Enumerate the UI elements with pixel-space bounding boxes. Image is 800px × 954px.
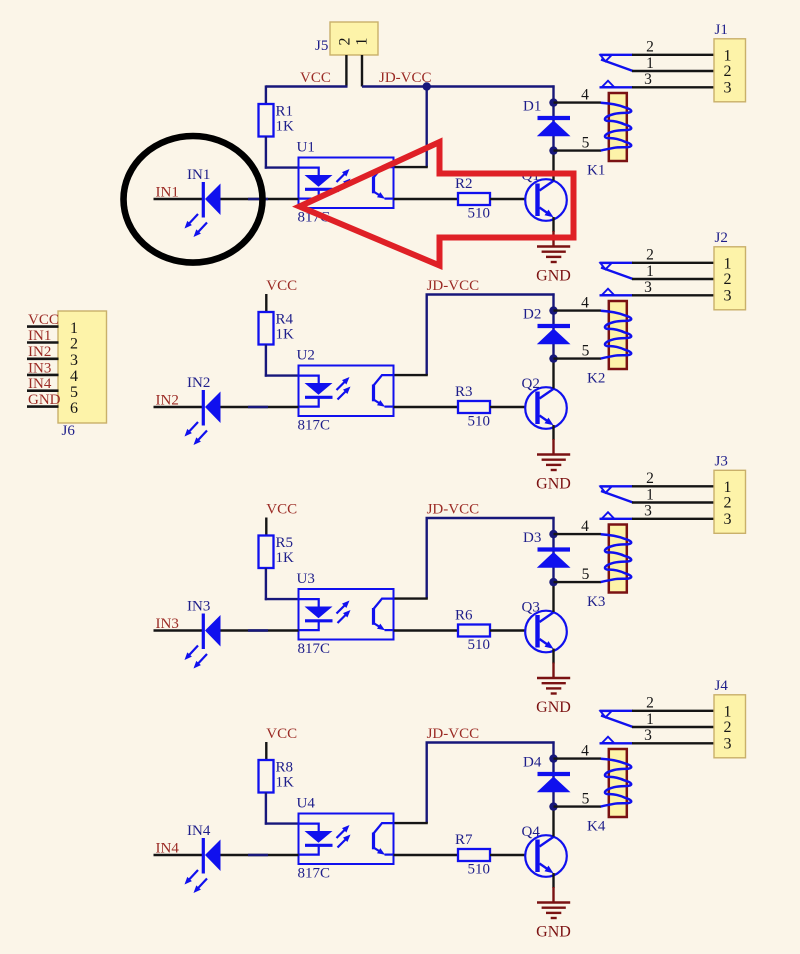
svg-text:VCC: VCC bbox=[28, 312, 59, 328]
light arrows inside U2 bbox=[337, 381, 346, 390]
ground symbol (channel 4) bbox=[537, 903, 570, 919]
wire JD-VCC rail drop to diode D1 bbox=[552, 85, 554, 151]
svg-text:IN3: IN3 bbox=[28, 360, 51, 376]
svg-text:2: 2 bbox=[70, 336, 78, 353]
wire Q1 emitter to ground bbox=[552, 217, 554, 232]
resistor R5 bbox=[259, 536, 274, 569]
svg-text:VCC: VCC bbox=[266, 278, 297, 294]
junction dot JD-VCC / opto collector bbox=[423, 82, 431, 90]
svg-text:1: 1 bbox=[70, 320, 78, 337]
wire coil pin 4 bbox=[554, 101, 602, 103]
svg-text:1: 1 bbox=[354, 38, 371, 46]
relay coil K1 bbox=[609, 93, 627, 161]
svg-text:1: 1 bbox=[646, 487, 654, 504]
svg-text:5: 5 bbox=[582, 135, 590, 152]
transistor Q2 bbox=[525, 387, 567, 429]
transistor Q1 bbox=[525, 179, 567, 221]
relay coil K4 bbox=[609, 749, 627, 817]
svg-text:4: 4 bbox=[581, 743, 589, 760]
svg-text:R2: R2 bbox=[455, 176, 473, 192]
svg-text:1: 1 bbox=[724, 703, 732, 720]
diode D3 bbox=[538, 547, 571, 551]
svg-text:2: 2 bbox=[646, 247, 654, 264]
wire opto emitter to resistor R7 bbox=[394, 854, 459, 856]
wire contact row pin 3 bbox=[632, 294, 714, 296]
svg-text:1: 1 bbox=[724, 479, 732, 496]
svg-text:GND: GND bbox=[536, 268, 571, 285]
svg-text:VCC: VCC bbox=[266, 726, 297, 742]
svg-text:Q3: Q3 bbox=[522, 600, 540, 616]
resistor R3 bbox=[458, 401, 490, 413]
annotation black circle around IN1 LED bbox=[124, 136, 263, 263]
svg-text:IN2: IN2 bbox=[187, 375, 210, 391]
connector J1 bbox=[714, 39, 746, 102]
wire J5 pin 2 to VCC bbox=[345, 55, 347, 87]
wire contact row pin 1 bbox=[632, 726, 714, 728]
junction dot D2 anode / coil pin 5 bbox=[549, 354, 557, 362]
wire JD-VCC rail drop to diode D3 bbox=[552, 517, 554, 583]
svg-text:IN4: IN4 bbox=[28, 376, 52, 392]
wire opto emitter to resistor R3 bbox=[394, 406, 459, 408]
wire JD-VCC rail drop to diode D4 bbox=[552, 741, 554, 807]
resistor R7 bbox=[458, 849, 490, 861]
resistor R8 bbox=[259, 760, 274, 793]
svg-text:3: 3 bbox=[724, 511, 732, 528]
svg-text:3: 3 bbox=[644, 71, 652, 88]
wire J5 pin 1 to JD-VCC bbox=[361, 55, 363, 87]
svg-text:U4: U4 bbox=[297, 796, 316, 812]
svg-text:D3: D3 bbox=[523, 530, 541, 546]
svg-text:1: 1 bbox=[646, 711, 654, 728]
junction dot D4 anode / coil pin 5 bbox=[549, 802, 557, 810]
resistor R1 bbox=[259, 104, 274, 137]
wire VCC stub (channel 2) bbox=[265, 294, 267, 312]
relay K4 contact common lever bbox=[601, 716, 633, 728]
wire Q3 collector bbox=[552, 583, 554, 613]
light arrows inside U4 bbox=[337, 829, 346, 838]
svg-text:1: 1 bbox=[646, 55, 654, 72]
LED IN4 indicator bbox=[202, 838, 205, 874]
svg-text:Q4: Q4 bbox=[522, 824, 541, 840]
svg-text:510: 510 bbox=[468, 637, 491, 653]
wire input row LED to opto bbox=[220, 629, 299, 631]
relay K2 NO contact bbox=[600, 294, 634, 296]
svg-text:2: 2 bbox=[646, 695, 654, 712]
svg-text:U3: U3 bbox=[297, 571, 315, 587]
svg-text:1K: 1K bbox=[276, 119, 295, 135]
diode D4 bbox=[538, 772, 571, 776]
wire R2 to transistor Q1 base bbox=[490, 198, 526, 200]
svg-text:GND: GND bbox=[536, 924, 571, 941]
svg-text:3: 3 bbox=[724, 735, 732, 752]
wire contact row pin 2 bbox=[632, 262, 714, 264]
wire R7 to transistor Q4 base bbox=[490, 854, 526, 856]
svg-text:817C: 817C bbox=[298, 866, 331, 882]
svg-text:1: 1 bbox=[646, 263, 654, 280]
light arrows inside U3 bbox=[337, 605, 346, 614]
svg-text:J6: J6 bbox=[62, 423, 76, 439]
svg-text:U1: U1 bbox=[297, 140, 315, 156]
svg-text:6: 6 bbox=[70, 400, 78, 417]
photo transistor inside U1 bbox=[374, 167, 394, 199]
svg-text:GND: GND bbox=[536, 476, 571, 493]
svg-text:2: 2 bbox=[724, 719, 732, 736]
svg-text:IN2: IN2 bbox=[28, 344, 51, 360]
svg-text:R5: R5 bbox=[276, 535, 294, 551]
opto-coupler U1 (817C) bbox=[299, 158, 394, 209]
connector J2 bbox=[714, 247, 746, 310]
svg-text:IN4: IN4 bbox=[187, 823, 211, 839]
svg-text:4: 4 bbox=[581, 87, 589, 104]
svg-text:2: 2 bbox=[724, 271, 732, 288]
wire J6 pin 4 stub bbox=[27, 374, 59, 377]
svg-text:Q2: Q2 bbox=[522, 376, 540, 392]
wire contact row pin 2 bbox=[632, 485, 714, 487]
svg-text:1: 1 bbox=[724, 255, 732, 272]
svg-text:K1: K1 bbox=[587, 163, 605, 179]
wire coil pin 5 bbox=[554, 149, 602, 151]
connector J5 bbox=[330, 22, 378, 55]
ground symbol (channel 1) bbox=[537, 247, 570, 263]
LED IN3 indicator bbox=[202, 614, 205, 650]
wire J6 pin 5 stub bbox=[27, 389, 59, 392]
wire input row LED to opto bbox=[220, 198, 299, 200]
svg-text:IN1: IN1 bbox=[28, 328, 51, 344]
wire input row left bbox=[154, 406, 203, 408]
wire JD-VCC rail (channel 3) bbox=[426, 517, 555, 519]
resistor R6 bbox=[458, 625, 490, 637]
wire Q3 emitter to ground bbox=[552, 649, 554, 664]
svg-text:4: 4 bbox=[581, 518, 589, 535]
connector J3 bbox=[714, 470, 746, 533]
svg-text:GND: GND bbox=[28, 392, 61, 408]
wire coil pin 4 bbox=[554, 533, 602, 535]
wire opto collector to JD-VCC bbox=[426, 87, 428, 168]
relay K1 NO contact bbox=[600, 86, 634, 88]
wire Q4 emitter to ground bbox=[552, 873, 554, 888]
wire JD-VCC rail (channel 4) bbox=[426, 741, 555, 743]
opto-coupler U2 (817C) bbox=[299, 366, 394, 417]
photo transistor inside U4 bbox=[374, 823, 394, 855]
svg-text:817C: 817C bbox=[298, 641, 331, 657]
svg-text:3: 3 bbox=[644, 503, 652, 520]
relay K4 NO contact bbox=[600, 742, 634, 744]
wire J6 pin 2 stub bbox=[27, 341, 59, 344]
annotation red arrow pointing at opto U1 bbox=[300, 142, 574, 266]
wire Q4 collector bbox=[552, 807, 554, 837]
wire VCC stub (channel 4) bbox=[265, 742, 267, 760]
wire contact row pin 3 bbox=[632, 86, 714, 88]
svg-text:D4: D4 bbox=[523, 755, 542, 771]
svg-text:U2: U2 bbox=[297, 348, 315, 364]
LED IN2 indicator bbox=[202, 390, 205, 426]
svg-text:K2: K2 bbox=[587, 371, 605, 387]
wire opto emitter to resistor R6 bbox=[394, 629, 459, 631]
svg-text:IN3: IN3 bbox=[187, 599, 210, 615]
wire VCC stub (channel 3) bbox=[265, 518, 267, 536]
relay K2 contact common lever bbox=[601, 268, 633, 280]
LED IN4 emission arrows bbox=[189, 870, 198, 880]
wire opto emitter to resistor R2 bbox=[394, 198, 459, 200]
wire contact row pin 1 bbox=[632, 278, 714, 280]
svg-text:R1: R1 bbox=[276, 104, 294, 120]
svg-text:3: 3 bbox=[644, 279, 652, 296]
svg-text:3: 3 bbox=[70, 352, 78, 369]
wire Q2 collector bbox=[552, 359, 554, 389]
svg-text:D1: D1 bbox=[523, 99, 541, 115]
wire VCC rail (channel 1) bbox=[266, 85, 348, 87]
connector J4 bbox=[714, 695, 746, 758]
opto-coupler U4 (817C) bbox=[299, 814, 394, 865]
resistor R4 bbox=[259, 312, 274, 345]
svg-text:JD-VCC: JD-VCC bbox=[427, 726, 480, 742]
svg-text:4: 4 bbox=[70, 368, 78, 385]
svg-text:3: 3 bbox=[724, 79, 732, 96]
svg-text:R4: R4 bbox=[276, 312, 294, 328]
svg-text:R6: R6 bbox=[455, 608, 473, 624]
diode D2 bbox=[538, 324, 571, 328]
wire opto collector to JD-VCC bbox=[426, 743, 428, 824]
svg-text:GND: GND bbox=[536, 699, 571, 716]
junction dot D1 cathode / coil pin 4 bbox=[549, 98, 557, 106]
wire Q1 collector bbox=[552, 151, 554, 181]
svg-text:1K: 1K bbox=[276, 775, 295, 791]
connector J6 bbox=[58, 311, 107, 423]
wire R4 bottom lead to opto anode bbox=[265, 345, 267, 377]
svg-text:3: 3 bbox=[644, 727, 652, 744]
svg-text:R8: R8 bbox=[276, 760, 294, 776]
svg-text:1: 1 bbox=[724, 47, 732, 64]
wire opto collector to JD-VCC bbox=[426, 518, 428, 599]
wire opto collector to JD-VCC bbox=[426, 295, 428, 376]
relay coil K3 bbox=[609, 525, 627, 593]
svg-text:JD-VCC: JD-VCC bbox=[427, 502, 480, 518]
ground symbol (channel 3) bbox=[537, 678, 570, 694]
svg-text:2: 2 bbox=[646, 470, 654, 487]
wire input row left bbox=[154, 854, 203, 856]
wire contact row pin 1 bbox=[632, 70, 714, 72]
svg-text:J2: J2 bbox=[715, 230, 728, 246]
wire coil pin 4 bbox=[554, 309, 602, 311]
wire JD-VCC rail (channel 1) bbox=[362, 85, 555, 87]
wire R3 to transistor Q2 base bbox=[490, 406, 526, 408]
relay K4 NC contact bbox=[600, 710, 634, 712]
opto-coupler U3 (817C) bbox=[299, 589, 394, 640]
relay K1 NC contact bbox=[600, 54, 634, 56]
wire JD-VCC rail drop to diode D2 bbox=[552, 293, 554, 359]
svg-text:5: 5 bbox=[582, 791, 590, 808]
svg-text:1K: 1K bbox=[276, 327, 295, 343]
junction dot D3 cathode / coil pin 4 bbox=[549, 530, 557, 538]
svg-text:J3: J3 bbox=[715, 453, 728, 469]
wire input row left bbox=[154, 629, 203, 631]
wire contact row pin 2 bbox=[632, 54, 714, 56]
wire input row LED to opto bbox=[220, 854, 299, 856]
resistor R2 bbox=[458, 193, 490, 205]
junction dot D4 cathode / coil pin 4 bbox=[549, 754, 557, 762]
wire JD-VCC rail (channel 2) bbox=[426, 293, 555, 295]
svg-text:J1: J1 bbox=[715, 22, 728, 38]
transistor Q4 bbox=[525, 835, 567, 877]
svg-text:K4: K4 bbox=[587, 819, 606, 835]
relay K3 contact common lever bbox=[601, 491, 633, 503]
svg-text:510: 510 bbox=[468, 206, 491, 222]
svg-text:5: 5 bbox=[582, 566, 590, 583]
svg-text:4: 4 bbox=[581, 295, 589, 312]
svg-text:510: 510 bbox=[468, 862, 491, 878]
svg-text:IN1: IN1 bbox=[187, 167, 210, 183]
LED IN1 indicator bbox=[202, 182, 205, 218]
wire coil pin 5 bbox=[554, 357, 602, 359]
transistor Q3 bbox=[525, 611, 567, 653]
svg-text:J5: J5 bbox=[315, 38, 328, 54]
svg-text:5: 5 bbox=[70, 384, 78, 401]
wire R5 bottom lead to opto anode bbox=[265, 568, 267, 600]
wire coil pin 5 bbox=[554, 805, 602, 807]
junction dot D3 anode / coil pin 5 bbox=[549, 578, 557, 586]
LED IN3 emission arrows bbox=[189, 646, 198, 656]
wire contact row pin 2 bbox=[632, 710, 714, 712]
junction dot D2 cathode / coil pin 4 bbox=[549, 306, 557, 314]
svg-text:2: 2 bbox=[724, 63, 732, 80]
relay coil K2 bbox=[609, 301, 627, 369]
relay K1 contact common lever bbox=[601, 60, 633, 72]
junction dot D1 anode / coil pin 5 bbox=[549, 146, 557, 154]
wire coil pin 4 bbox=[554, 757, 602, 759]
wire J6 pin 3 stub bbox=[27, 357, 59, 360]
relay K2 NC contact bbox=[600, 262, 634, 264]
svg-text:1K: 1K bbox=[276, 550, 295, 566]
svg-text:510: 510 bbox=[468, 414, 491, 430]
svg-text:K3: K3 bbox=[587, 594, 605, 610]
light arrows inside U1 bbox=[337, 173, 346, 182]
svg-text:R7: R7 bbox=[455, 832, 473, 848]
svg-text:3: 3 bbox=[724, 287, 732, 304]
wire J6 pin 1 stub bbox=[27, 325, 59, 328]
LED IN1 emission arrows bbox=[189, 214, 198, 224]
wire input row LED to opto bbox=[220, 406, 299, 408]
LED IN2 emission arrows bbox=[189, 422, 198, 432]
wire R8 bottom lead to opto anode bbox=[265, 793, 267, 825]
svg-text:JD-VCC: JD-VCC bbox=[379, 70, 432, 86]
relay K3 NO contact bbox=[600, 518, 634, 520]
wire contact row pin 3 bbox=[632, 742, 714, 744]
ground symbol (channel 2) bbox=[537, 455, 570, 471]
photo transistor inside U3 bbox=[374, 599, 394, 631]
wire R1 bottom lead to opto anode bbox=[265, 137, 267, 169]
svg-text:R3: R3 bbox=[455, 384, 473, 400]
svg-text:J4: J4 bbox=[715, 678, 729, 694]
wire coil pin 5 bbox=[554, 581, 602, 583]
svg-text:VCC: VCC bbox=[266, 502, 297, 518]
svg-text:JD-VCC: JD-VCC bbox=[427, 278, 480, 294]
svg-text:VCC: VCC bbox=[300, 70, 331, 86]
svg-text:5: 5 bbox=[582, 343, 590, 360]
svg-text:2: 2 bbox=[337, 38, 354, 46]
svg-text:D2: D2 bbox=[523, 307, 541, 323]
wire R6 to transistor Q3 base bbox=[490, 629, 526, 631]
wire contact row pin 3 bbox=[632, 518, 714, 520]
relay K3 NC contact bbox=[600, 485, 634, 487]
diode D1 bbox=[538, 116, 571, 120]
wire contact row pin 1 bbox=[632, 501, 714, 503]
svg-text:817C: 817C bbox=[298, 418, 331, 434]
svg-text:2: 2 bbox=[646, 39, 654, 56]
wire J6 pin 6 stub bbox=[27, 405, 59, 408]
photo transistor inside U2 bbox=[374, 375, 394, 407]
wire Q2 emitter to ground bbox=[552, 425, 554, 440]
svg-text:2: 2 bbox=[724, 495, 732, 512]
wire input row left bbox=[154, 198, 203, 200]
